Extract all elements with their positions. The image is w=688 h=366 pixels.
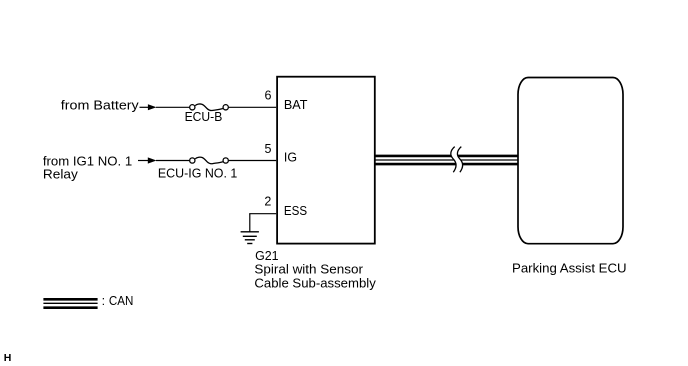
svg-text:CAN: CAN bbox=[109, 294, 133, 308]
wire: ground to box pin 2 bbox=[249, 213, 276, 215]
fuse ECU-B bbox=[190, 104, 229, 111]
ECU box: Parking Assist ECU bbox=[518, 78, 623, 244]
svg-text:6: 6 bbox=[264, 89, 271, 103]
wire: arrow to fuse ECU-B bbox=[156, 106, 189, 108]
ground G21 bbox=[241, 214, 259, 244]
svg-text:5: 5 bbox=[264, 142, 271, 156]
svg-text:Parking Assist ECU: Parking Assist ECU bbox=[512, 261, 627, 275]
CAN bus wires bbox=[375, 156, 518, 164]
svg-text:from IG1 NO. 1: from IG1 NO. 1 bbox=[43, 154, 132, 168]
wire: fuse ECU-IG to box pin 5 bbox=[229, 160, 276, 162]
wire: fuse ECU-B to box pin 6 bbox=[229, 106, 276, 108]
arrow into wire IG bbox=[138, 157, 157, 163]
svg-text:from Battery: from Battery bbox=[61, 98, 140, 112]
legend CAN bus sample bbox=[43, 299, 97, 307]
svg-text:IG: IG bbox=[284, 151, 297, 165]
svg-text:ECU-IG NO. 1: ECU-IG NO. 1 bbox=[158, 166, 237, 180]
svg-text:G21: G21 bbox=[255, 249, 279, 263]
connector box U1 G21 bbox=[277, 77, 375, 244]
svg-text:Relay: Relay bbox=[43, 168, 79, 182]
svg-text::: : bbox=[102, 294, 105, 308]
fuse ECU-IG NO. 1 bbox=[190, 157, 229, 164]
arrow into wire BAT bbox=[140, 104, 157, 110]
svg-text:Spiral with Sensor: Spiral with Sensor bbox=[254, 263, 363, 277]
svg-text:2: 2 bbox=[264, 194, 271, 208]
svg-text:BAT: BAT bbox=[284, 98, 308, 112]
bus break symbol bbox=[451, 147, 463, 173]
wire: arrow to fuse ECU-IG bbox=[156, 160, 189, 162]
svg-text:ESS: ESS bbox=[284, 204, 307, 218]
svg-text:H: H bbox=[4, 352, 12, 364]
svg-text:Cable Sub-assembly: Cable Sub-assembly bbox=[254, 276, 376, 290]
svg-text:ECU-B: ECU-B bbox=[185, 110, 223, 124]
